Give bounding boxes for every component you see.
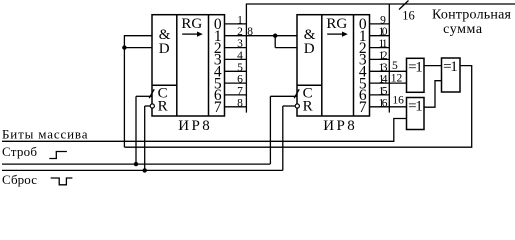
register DD1 ИР8 body — [152, 15, 225, 116]
svg-text:11: 11 — [379, 38, 388, 50]
junction: strobe to DD1 C — [134, 162, 138, 166]
DD2 output bit digits 0-7 — [359, 16, 367, 116]
DD1 shift-direction arrow — [182, 32, 203, 37]
svg-text:D: D — [159, 41, 170, 57]
svg-text:16: 16 — [379, 97, 388, 109]
wire: DD2 D input — [275, 47, 297, 49]
DD2 pin numbers 9-16 — [379, 14, 388, 109]
wire: DD1 serial input feedback vertical — [123, 35, 125, 147]
wire: bus A to DD2 & input — [246, 35, 297, 37]
wire: strobe line — [2, 163, 270, 165]
svg-text:D: D — [304, 41, 315, 57]
svg-text:ИР8: ИР8 — [323, 118, 355, 134]
wire: DD1 R input vertical to reset line — [144, 106, 146, 170]
wire: checksum bus top rail to right edge — [246, 3, 515, 5]
DD2 R inversion bubble — [295, 104, 299, 108]
svg-text:R: R — [158, 98, 168, 114]
svg-text:8: 8 — [237, 97, 243, 109]
junction: DD1 &/D tie — [122, 45, 126, 49]
wire: tap bit 5 from bus B to U1 — [389, 70, 406, 72]
net label Контрольная сумма — [432, 8, 512, 37]
svg-text:13: 13 — [379, 62, 388, 74]
wire: U1 output to U3 input — [424, 65, 442, 67]
wire: U3 output feedback to DD1 serial input — [124, 66, 471, 148]
DD1 output pin stubs — [225, 24, 247, 107]
svg-text:=1: =1 — [408, 59, 423, 75]
svg-text:=1: =1 — [408, 99, 423, 115]
svg-text:8: 8 — [247, 26, 253, 38]
DD1 R inversion bubble — [150, 104, 154, 108]
svg-text:10: 10 — [379, 26, 388, 38]
svg-text:16: 16 — [392, 95, 404, 107]
wire: tap bit 12 from bus B to U1 — [389, 82, 406, 84]
svg-text:9: 9 — [380, 14, 386, 26]
svg-text:сумма: сумма — [443, 22, 483, 37]
wire: DD1 R input horizontal — [145, 105, 151, 107]
register DD2 ИР8 body — [297, 15, 370, 116]
bus width tick 16 — [399, 1, 409, 10]
reset waveform glyph — [51, 178, 73, 185]
svg-text:7: 7 — [237, 85, 243, 97]
xor gate U3 (combiner) — [442, 58, 461, 92]
svg-text:3: 3 — [237, 38, 243, 50]
wire: reset line — [2, 169, 283, 171]
wire: DD2 C input horizontal — [270, 95, 297, 97]
wire: DD2 R input vertical from reset line — [282, 106, 284, 170]
DD1 C dynamic-input slash — [149, 89, 154, 98]
svg-text:5: 5 — [237, 62, 243, 74]
wire: DD1 C input horizontal — [136, 95, 152, 97]
svg-text:RG: RG — [181, 16, 202, 32]
wire: U2 output to U3 lower input — [424, 81, 442, 108]
svg-text:RG: RG — [326, 16, 347, 32]
wire: DD2 D tie vertical — [274, 36, 276, 48]
svg-text:6: 6 — [237, 74, 243, 86]
svg-text:5: 5 — [392, 60, 398, 72]
svg-text:7: 7 — [359, 99, 367, 116]
xor gate U2 (tap 16 + data) — [407, 98, 425, 130]
junction: DD2 &/D tie — [273, 34, 277, 38]
svg-text:Сброс: Сброс — [2, 172, 37, 187]
DD2 output pin stubs — [370, 24, 390, 107]
svg-text:15: 15 — [379, 85, 388, 97]
xor gate U1 (taps 5,12) — [407, 58, 425, 92]
svg-text:Строб: Строб — [2, 144, 37, 159]
wire: DD1 & input — [124, 35, 152, 37]
junction: reset to DD1 R — [143, 168, 147, 172]
svg-text:=1: =1 — [443, 59, 458, 75]
svg-text:4: 4 — [237, 50, 243, 62]
DD1 output bit digits 0-7 — [214, 16, 222, 116]
wire: tap bit 16 from bus B to U2 — [389, 106, 406, 108]
svg-text:14: 14 — [379, 74, 388, 86]
svg-text:Биты массива: Биты массива — [2, 127, 88, 142]
bus node B: 16-bit output bus of DD2 — [388, 4, 390, 113]
svg-text:16: 16 — [402, 9, 415, 23]
svg-text:7: 7 — [214, 99, 222, 116]
bus node A: 8-bit output bus of DD1 — [245, 4, 247, 113]
svg-text:R: R — [303, 98, 313, 114]
wire: DD1 D input — [124, 47, 152, 49]
wire: DD2 R input horizontal — [283, 105, 295, 107]
svg-text:ИР8: ИР8 — [178, 118, 210, 134]
wire: data input line Биты массива to U2 — [2, 119, 407, 142]
wire: DD1 C input vertical to strobe line — [135, 96, 137, 164]
wire: DD2 C input vertical from strobe line — [269, 96, 271, 164]
svg-text:12: 12 — [391, 73, 403, 85]
DD1 pin numbers 1-8 — [237, 14, 243, 109]
svg-text:12: 12 — [379, 50, 388, 62]
svg-text:2: 2 — [237, 26, 243, 38]
DD2 shift-direction arrow — [327, 32, 348, 37]
svg-text:Контрольная: Контрольная — [432, 8, 512, 23]
strobe waveform glyph — [49, 152, 67, 159]
DD2 C dynamic-input slash — [294, 89, 299, 98]
svg-text:1: 1 — [237, 14, 243, 26]
